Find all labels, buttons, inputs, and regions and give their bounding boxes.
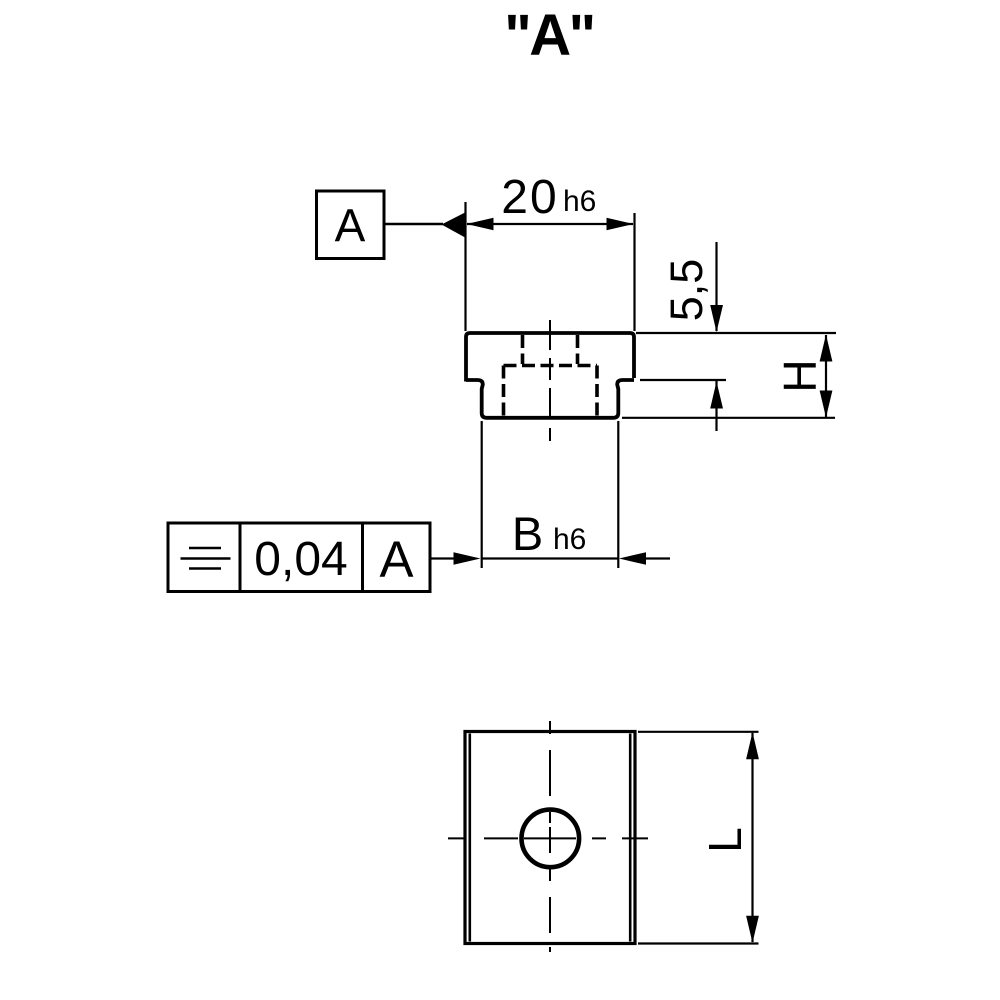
FCF leader arrow	[430, 552, 481, 565]
svg-text:20: 20	[501, 171, 558, 224]
bottom view left edge line	[468, 734, 471, 942]
svg-text:h6: h6	[553, 523, 586, 556]
datum leader wire	[384, 223, 443, 226]
datum triangle	[442, 212, 467, 238]
label 20 h6	[501, 171, 596, 224]
extension line y380 (step)	[640, 379, 726, 381]
bottom view right edge line	[629, 734, 632, 942]
dimension 5,5 lower arrow	[710, 381, 723, 431]
section centerline	[549, 320, 551, 441]
extension line y333 right of part	[636, 332, 836, 334]
extension line left (20 h6)	[464, 202, 466, 331]
extension line right (B h6)	[617, 421, 619, 568]
dimension line 20 h6	[467, 218, 634, 231]
dimension L	[746, 732, 759, 942]
hidden thread left	[502, 366, 506, 419]
symmetry symbol	[181, 548, 231, 569]
bottom view horizontal centerline	[448, 837, 648, 839]
hole circle	[522, 810, 580, 868]
extension line top (L)	[638, 731, 759, 733]
part cross-section outline	[466, 333, 634, 418]
svg-text:"A": "A"	[504, 3, 593, 68]
extension line bottom (L)	[638, 942, 759, 944]
svg-text:H: H	[774, 359, 826, 392]
hidden hole small bore right	[576, 335, 580, 364]
feature control frame (symmetry 0,04 A)	[168, 523, 430, 592]
svg-text:5,5: 5,5	[661, 259, 712, 322]
dimension 5,5 upper arrow	[710, 242, 723, 332]
svg-text:A: A	[335, 200, 366, 252]
datum box A	[317, 191, 385, 259]
extension line right (20 h6)	[633, 213, 635, 331]
extension line left (B h6)	[481, 421, 483, 568]
svg-text:B: B	[512, 507, 543, 560]
svg-text:h6: h6	[563, 185, 596, 218]
bottom view outline	[465, 732, 635, 944]
hidden thread right	[595, 366, 599, 419]
extension line y418 (bottom)	[622, 417, 835, 419]
label B h6	[512, 507, 587, 560]
hidden hole step	[504, 364, 598, 368]
svg-text:0,04: 0,04	[254, 533, 347, 586]
svg-text:A: A	[379, 531, 413, 588]
svg-text:L: L	[699, 827, 751, 853]
dimension line B h6	[482, 552, 670, 565]
bottom view vertical centerline	[549, 721, 551, 952]
hidden hole small bore left	[521, 335, 525, 364]
dimension H	[820, 335, 833, 418]
